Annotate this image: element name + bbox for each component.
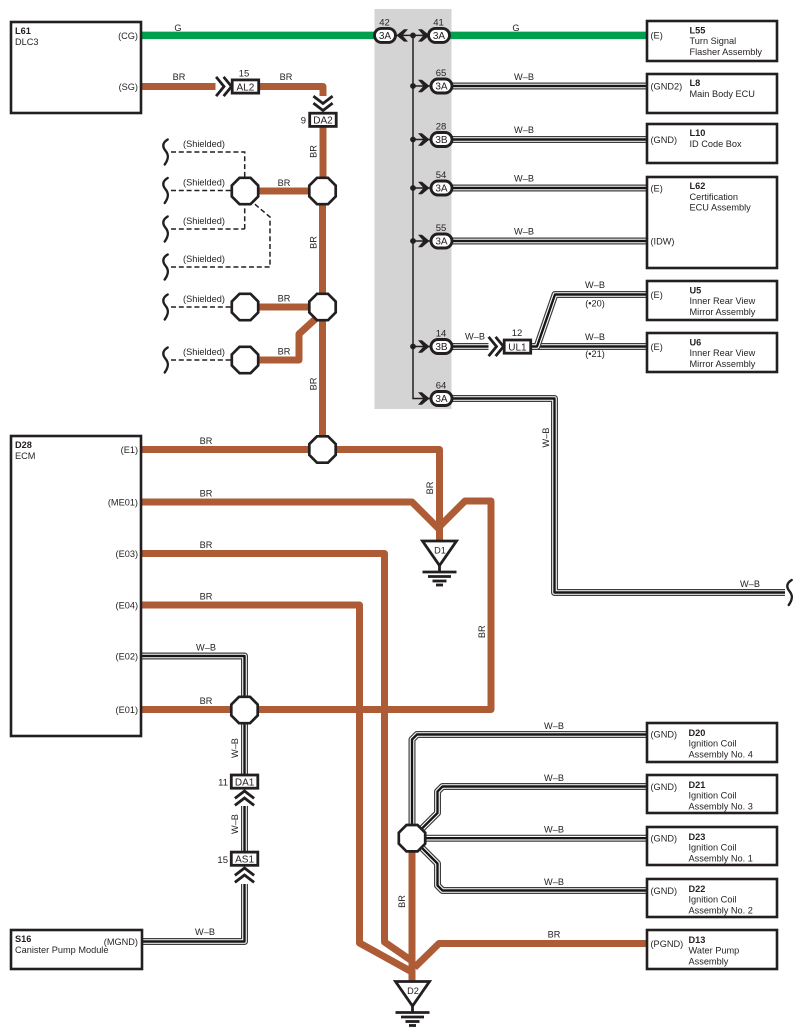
- svg-text:3A: 3A: [435, 394, 448, 405]
- connector 54 pin 3A: [431, 170, 452, 195]
- svg-text:3A: 3A: [379, 31, 392, 42]
- wire W-B connector 14/3B to splice UL1: [452, 346, 489, 348]
- svg-text:ECM: ECM: [15, 451, 35, 461]
- svg-text:W–B: W–B: [544, 773, 564, 783]
- svg-text:U6: U6: [690, 337, 702, 347]
- svg-text:W–B: W–B: [544, 721, 564, 731]
- bus stub to connector: [413, 346, 431, 348]
- svg-text:BR: BR: [309, 377, 319, 390]
- svg-text:Main Body ECU: Main Body ECU: [690, 89, 755, 99]
- svg-text:BR: BR: [309, 145, 319, 158]
- svg-text:42: 42: [379, 17, 390, 28]
- wire W-B splice DA1 to junction J8: [244, 712, 246, 775]
- wire W-B connector 28/3B to L10: [452, 139, 647, 141]
- svg-text:D1: D1: [434, 546, 446, 556]
- connector 41 pin 3A: [429, 17, 450, 42]
- shield brace row 5: [163, 295, 168, 320]
- svg-text:(•20): (•20): [585, 299, 605, 309]
- wire BR from AL2 to connector DA2: [259, 87, 324, 97]
- svg-text:BR: BR: [278, 294, 291, 304]
- svg-text:15: 15: [239, 69, 250, 80]
- wire BR junction J4 to junction J3: [245, 304, 323, 311]
- wire BR from ECM (E03) down to ground D2: [141, 554, 412, 962]
- junction J6 on E1 line: [309, 436, 335, 462]
- component box L55 Turn Signal Flasher Assembly: [647, 21, 777, 61]
- svg-text:W–B: W–B: [544, 825, 564, 835]
- svg-text:W–B: W–B: [230, 738, 240, 758]
- svg-text:(GND): (GND): [651, 729, 678, 739]
- svg-text:D28: D28: [15, 440, 32, 450]
- svg-text:(E): (E): [651, 31, 663, 41]
- svg-text:W–B: W–B: [514, 174, 534, 184]
- component box U5 Inner Rear View Mirror Assembly: [647, 281, 777, 320]
- junction dot: [410, 33, 416, 39]
- svg-text:BR: BR: [278, 178, 291, 188]
- connector 65 pin 3A: [431, 68, 452, 93]
- svg-text:L55: L55: [690, 25, 706, 35]
- svg-text:W–B: W–B: [196, 643, 216, 653]
- svg-text:AL2: AL2: [237, 82, 255, 93]
- arrow into connector: [418, 392, 430, 404]
- wire W-B connector 55/3A to L62 (IDW): [452, 240, 647, 242]
- component box U6 Inner Rear View Mirror Assembly: [647, 333, 777, 372]
- svg-text:Ignition Coil: Ignition Coil: [689, 791, 737, 801]
- svg-text:D23: D23: [689, 832, 706, 842]
- svg-text:W–B: W–B: [465, 332, 485, 342]
- svg-text:W–B: W–B: [514, 125, 534, 135]
- svg-text:(GND): (GND): [651, 886, 678, 896]
- svg-text:9: 9: [301, 116, 306, 127]
- svg-text:11: 11: [218, 778, 228, 789]
- svg-text:(ME01): (ME01): [108, 497, 138, 507]
- svg-text:D20: D20: [689, 728, 706, 738]
- component box L10 ID Code Box: [647, 124, 777, 163]
- svg-text:Mirror Assembly: Mirror Assembly: [690, 307, 756, 317]
- svg-text:Assembly No. 4: Assembly No. 4: [689, 749, 753, 759]
- svg-text:AS1: AS1: [235, 855, 254, 866]
- component box D21 Ignition Coil Assembly No. 3: [647, 775, 777, 813]
- svg-text:Ignition Coil: Ignition Coil: [689, 843, 737, 853]
- svg-text:W–B: W–B: [230, 814, 240, 834]
- svg-text:L61: L61: [15, 26, 31, 36]
- junction dot: [410, 344, 416, 350]
- component box L62 Certification ECU Assembly: [647, 177, 777, 268]
- svg-text:BR: BR: [477, 625, 487, 638]
- wire link between connectors 42 and 41: [394, 34, 430, 36]
- shield brace row 2: [163, 178, 168, 203]
- svg-text:L8: L8: [690, 78, 701, 88]
- wire W-B junction J7 to D21 (GND): [419, 787, 647, 832]
- svg-text:Assembly No. 2: Assembly No. 2: [689, 905, 753, 915]
- svg-text:(GND2): (GND2): [651, 81, 683, 91]
- svg-text:64: 64: [436, 381, 447, 392]
- svg-text:(Shielded): (Shielded): [183, 178, 225, 188]
- ground D2: [396, 982, 430, 1026]
- junction dot: [410, 83, 416, 89]
- svg-text:(Shielded): (Shielded): [183, 347, 225, 357]
- svg-text:W–B: W–B: [195, 927, 215, 937]
- component box L8 Main Body ECU: [647, 74, 777, 113]
- svg-text:D21: D21: [689, 780, 706, 790]
- svg-text:(GND): (GND): [651, 782, 678, 792]
- svg-text:BR: BR: [309, 236, 319, 249]
- splice AL2 pin 15: [217, 69, 259, 96]
- svg-text:3A: 3A: [435, 184, 448, 195]
- svg-text:3A: 3A: [435, 237, 448, 248]
- connector 55 pin 3A: [431, 223, 452, 248]
- splice DA1 pin 11: [218, 775, 258, 805]
- wire W-B from ECM (E02) to junction J8: [141, 656, 245, 703]
- svg-text:(GND): (GND): [651, 135, 678, 145]
- wire G from connector 41 to L55: [447, 32, 647, 40]
- svg-text:(SG): (SG): [119, 82, 138, 92]
- splice DA2 pin 9: [301, 97, 336, 127]
- svg-text:Water Pump: Water Pump: [689, 946, 740, 956]
- svg-text:(•21): (•21): [585, 349, 605, 359]
- wire BR junction J5 elbow up to junction J3: [245, 318, 317, 361]
- junction J3: [309, 294, 335, 320]
- junction dot: [410, 137, 416, 143]
- wire W-B junction J7 to D22 (GND): [419, 845, 647, 891]
- shield brace row 4: [163, 255, 168, 280]
- svg-text:(E): (E): [651, 290, 663, 300]
- svg-text:BR: BR: [200, 696, 213, 706]
- svg-text:W–B: W–B: [544, 877, 564, 887]
- svg-text:BR: BR: [278, 347, 291, 357]
- component box L61 DLC3: [11, 22, 141, 113]
- svg-text:(MGND): (MGND): [104, 937, 138, 947]
- wire BR from ECM (ME01) diagonal into D1 stem: [141, 502, 440, 530]
- svg-text:BR: BR: [173, 72, 186, 82]
- svg-text:DA2: DA2: [313, 116, 333, 127]
- junction J1 (shield rows 1-4): [232, 178, 258, 204]
- svg-text:ECU Assembly: ECU Assembly: [690, 203, 752, 213]
- wire BR from L61 (SG) to splice AL2: [141, 83, 216, 90]
- junction J2: [309, 178, 335, 204]
- bus stub to connector: [413, 85, 431, 87]
- svg-text:15: 15: [217, 855, 228, 866]
- shield dashed row 3: [171, 204, 245, 229]
- wire W-B splice UL1 branch to U5: [532, 295, 648, 347]
- component box D20 Ignition Coil Assembly No. 4: [647, 723, 777, 762]
- wire W-B connector 54/3A to L62 (E): [452, 187, 647, 189]
- wire BR junction J1 to junction J2: [245, 188, 323, 195]
- shield dashed row 1: [171, 152, 245, 179]
- svg-text:Assembly No. 3: Assembly No. 3: [689, 801, 753, 811]
- svg-text:Turn Signal: Turn Signal: [690, 36, 737, 46]
- arrow into connector: [418, 182, 430, 194]
- junction dot: [410, 185, 416, 191]
- svg-text:DLC3: DLC3: [15, 37, 39, 47]
- svg-text:41: 41: [433, 17, 444, 28]
- svg-text:W–B: W–B: [514, 227, 534, 237]
- arrow into connector: [418, 340, 430, 352]
- shield dashed row 4: [171, 204, 270, 268]
- arrow into connector: [418, 235, 430, 247]
- svg-text:DA1: DA1: [235, 777, 255, 788]
- svg-text:(E01): (E01): [116, 705, 138, 715]
- svg-text:Assembly No. 1: Assembly No. 1: [689, 853, 753, 863]
- shield brace row 3: [163, 217, 168, 242]
- arrow into connector 41: [418, 29, 430, 41]
- shield brace row 6: [163, 348, 168, 373]
- svg-text:(PGND): (PGND): [651, 939, 684, 949]
- wire W-B connector 64/3A to right edge continuation: [452, 399, 785, 593]
- svg-text:Inner Rear View: Inner Rear View: [690, 296, 756, 306]
- svg-text:U5: U5: [690, 285, 702, 295]
- svg-text:W–B: W–B: [541, 428, 551, 448]
- svg-text:BR: BR: [425, 481, 435, 494]
- shield dashed row 2: [171, 190, 232, 192]
- svg-text:Canister Pump Module: Canister Pump Module: [15, 945, 108, 955]
- svg-text:3A: 3A: [433, 31, 446, 42]
- svg-text:(Shielded): (Shielded): [183, 254, 225, 264]
- svg-text:UL1: UL1: [508, 342, 527, 353]
- svg-text:(IDW): (IDW): [651, 236, 675, 246]
- svg-text:ID Code Box: ID Code Box: [690, 139, 742, 149]
- svg-text:Assembly: Assembly: [689, 956, 729, 966]
- svg-text:(Shielded): (Shielded): [183, 139, 225, 149]
- wire W-B junction J7 to D23 (GND): [420, 837, 647, 839]
- wire W-B splice AS1 to splice DA1: [244, 806, 246, 853]
- svg-text:Certification: Certification: [690, 192, 739, 202]
- svg-text:BR: BR: [200, 592, 213, 602]
- connector 28 pin 3B: [431, 122, 452, 147]
- component box D23 Ignition Coil Assembly No. 1: [647, 827, 777, 865]
- svg-text:L10: L10: [690, 128, 706, 138]
- ground D1: [423, 541, 457, 585]
- svg-text:55: 55: [436, 223, 447, 234]
- svg-text:BR: BR: [397, 895, 407, 908]
- component box D22 Ignition Coil Assembly No. 2: [647, 879, 777, 917]
- svg-text:Mirror Assembly: Mirror Assembly: [690, 359, 756, 369]
- svg-text:Flasher Assembly: Flasher Assembly: [690, 47, 763, 57]
- svg-text:3B: 3B: [435, 342, 448, 353]
- svg-text:3A: 3A: [435, 82, 448, 93]
- wire BR from ECM (E01) up and into D1 stem: [141, 501, 491, 710]
- svg-text:Ignition Coil: Ignition Coil: [689, 895, 737, 905]
- junction-block shaded band: [375, 9, 452, 409]
- wire W-B connector 65/3A to L8: [452, 85, 647, 87]
- svg-text:BR: BR: [200, 489, 213, 499]
- connector 64 pin 3A: [431, 381, 452, 406]
- bus stub to connector: [413, 139, 431, 141]
- svg-text:S16: S16: [15, 934, 31, 944]
- svg-text:28: 28: [436, 122, 447, 133]
- svg-text:(E): (E): [651, 342, 663, 352]
- junction J4 (shield row 5): [232, 294, 258, 320]
- wire BR junction J2 down to junction J3: [319, 191, 326, 307]
- svg-text:(Shielded): (Shielded): [183, 294, 225, 304]
- continuation brace at right edge: [787, 580, 792, 605]
- wire W-B from S16 (MGND) up to splice AS1: [141, 884, 245, 942]
- svg-text:65: 65: [436, 68, 447, 79]
- component box D28 ECM: [11, 436, 141, 736]
- svg-text:(GND): (GND): [651, 834, 678, 844]
- svg-text:Ignition Coil: Ignition Coil: [689, 739, 737, 749]
- junction J7 ignition ground: [399, 825, 425, 851]
- shield dashed row 5: [171, 306, 232, 308]
- svg-text:BR: BR: [200, 436, 213, 446]
- bus wire vertical in junction block: [413, 35, 431, 398]
- svg-text:12: 12: [512, 328, 523, 339]
- wire BR junction J7 down to ground D2: [409, 838, 416, 981]
- wire BR from D13 (PGND) to ground D2: [415, 944, 648, 968]
- wire G from L61 (CG) to connector 42: [141, 32, 377, 40]
- arrow into connector: [418, 80, 430, 92]
- svg-text:54: 54: [436, 170, 447, 181]
- svg-text:W–B: W–B: [514, 72, 534, 82]
- svg-text:W–B: W–B: [585, 332, 605, 342]
- svg-text:14: 14: [436, 329, 447, 340]
- shield brace row 1: [163, 140, 168, 165]
- svg-text:3B: 3B: [435, 135, 448, 146]
- svg-text:(E1): (E1): [121, 445, 138, 455]
- svg-text:D13: D13: [689, 935, 706, 945]
- svg-text:W–B: W–B: [740, 579, 760, 589]
- splice UL1 pin 12: [490, 328, 531, 355]
- svg-text:D2: D2: [407, 986, 419, 996]
- splice AS1 pin 15: [217, 852, 257, 881]
- component box D13 Water Pump Assembly: [647, 930, 777, 969]
- junction J5 (shield row 6): [232, 347, 258, 373]
- svg-text:BR: BR: [548, 930, 561, 940]
- arrow into connector: [418, 133, 430, 145]
- connector 14 pin 3B: [431, 329, 452, 354]
- wire W-B splice UL1 to U6: [532, 346, 648, 348]
- svg-text:G: G: [174, 23, 181, 33]
- svg-text:W–B: W–B: [585, 280, 605, 290]
- wire BR junction J3 down to junction J6: [319, 307, 326, 450]
- svg-text:BR: BR: [280, 72, 293, 82]
- wire W-B junction J7 to D20 (GND): [412, 735, 647, 834]
- svg-text:(E03): (E03): [116, 549, 138, 559]
- connector 42 pin 3A: [375, 17, 396, 42]
- junction dot: [410, 238, 416, 244]
- svg-text:(Shielded): (Shielded): [183, 216, 225, 226]
- svg-text:(CG): (CG): [118, 31, 138, 41]
- wire BR from ECM (E04) down to ground D2: [141, 605, 412, 972]
- wire BR from DA2 down to junction J2: [320, 127, 327, 192]
- svg-text:(E): (E): [651, 183, 663, 193]
- svg-text:(E02): (E02): [116, 651, 138, 661]
- arrow into connector 42: [397, 29, 409, 41]
- junction J8 on E01 line: [231, 697, 257, 723]
- svg-text:D22: D22: [689, 884, 706, 894]
- svg-text:G: G: [512, 23, 519, 33]
- bus stub to connector: [413, 187, 431, 189]
- shield dashed row 6: [171, 359, 232, 361]
- component box S16 Canister Pump Module: [11, 930, 142, 969]
- wire BR from ECM (E1) through J6 to ground D1: [141, 450, 440, 542]
- bus stub to connector: [413, 240, 431, 242]
- svg-text:BR: BR: [200, 540, 213, 550]
- svg-text:Inner Rear View: Inner Rear View: [690, 348, 756, 358]
- svg-text:(E04): (E04): [116, 600, 138, 610]
- svg-text:L62: L62: [690, 181, 706, 191]
